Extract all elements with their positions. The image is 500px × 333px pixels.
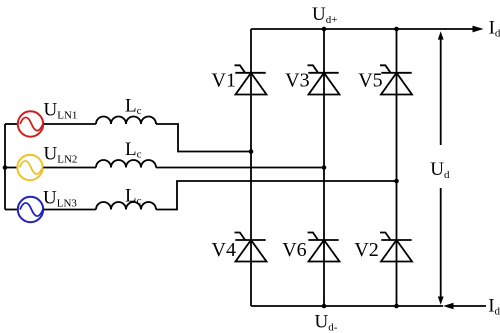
wire: U_d arrow lower segment [440, 188, 442, 298]
node: bottom bus leg 2 [322, 304, 327, 309]
thyristor V5 [380, 65, 412, 94]
wire: top bus U_d+ [251, 28, 474, 30]
svg-text:Lc: Lc [125, 96, 142, 118]
wire: phase 2 inductor to bridge leg 2 [156, 167, 324, 169]
thyristor V3 [308, 65, 340, 94]
inductor L_c phase 1 [96, 117, 156, 124]
arrowhead: I_d top (points right) [473, 26, 484, 33]
svg-text:ULN2: ULN2 [44, 144, 78, 166]
svg-text:Id: Id [488, 296, 500, 318]
wire: bridge leg 3 [396, 29, 398, 306]
node: top bus leg 2 [322, 27, 327, 32]
svg-text:Id: Id [489, 17, 500, 39]
wire: U_d arrow upper segment [440, 39, 442, 146]
AC source U_LN1 [18, 111, 43, 136]
wire: phase 3 source to inductor [44, 209, 96, 211]
AC source U_LN3 [18, 197, 43, 222]
thyristor V1 [235, 65, 267, 94]
svg-text:ULN1: ULN1 [44, 100, 78, 122]
svg-text:Ud-: Ud- [315, 311, 338, 333]
node: phase 3 to leg 3 [394, 179, 399, 184]
node: neutral junction [3, 165, 8, 170]
thyristor V6 [308, 233, 340, 262]
wire: phase 2 source to inductor [43, 167, 96, 169]
thyristor V2 [380, 233, 412, 262]
svg-text:V1: V1 [212, 69, 236, 91]
svg-text:Ud+: Ud+ [312, 4, 337, 26]
svg-text:V4: V4 [212, 239, 236, 261]
node: bottom bus leg 3 [394, 304, 399, 309]
svg-text:V6: V6 [282, 239, 306, 261]
svg-text:Lc: Lc [125, 139, 142, 161]
wire: phase 1 inductor to bridge leg 1 [156, 124, 251, 152]
wire: bottom bus right stub [453, 305, 487, 307]
svg-text:V3: V3 [285, 69, 309, 91]
wire: bridge leg 1 [250, 29, 252, 306]
arrowhead: I_d bottom (points left) [443, 303, 454, 310]
wire: phase 1 source to inductor [44, 123, 96, 125]
wire: phase 3 inductor to bridge leg 3 [156, 181, 397, 210]
inductor L_c phase 2 [96, 160, 156, 168]
arrowhead: U_d lower (points down) [438, 297, 444, 305]
node: top bus leg 3 [394, 27, 399, 32]
wire: stub to source 1 [5, 123, 17, 125]
wire: left neutral rail [4, 124, 6, 210]
svg-text:Lc: Lc [125, 186, 142, 208]
arrowhead: U_d upper (points up) [438, 31, 444, 39]
node: phase 1 to leg 1 [249, 149, 254, 154]
svg-text:ULN3: ULN3 [43, 187, 77, 209]
wire: stub to source 3 [5, 209, 17, 211]
node: phase 2 to leg 2 [322, 165, 327, 170]
wire: stub to source 2 [5, 167, 17, 169]
thyristor V4 [235, 233, 267, 262]
svg-text:V5: V5 [358, 69, 382, 91]
svg-text:Ud: Ud [430, 159, 450, 181]
wire: bottom bus U_d- [251, 305, 443, 307]
AC source U_LN2 [17, 155, 42, 180]
svg-text:V2: V2 [354, 239, 378, 261]
wire: bridge leg 2 [323, 29, 325, 306]
inductor L_c phase 3 [96, 202, 156, 210]
